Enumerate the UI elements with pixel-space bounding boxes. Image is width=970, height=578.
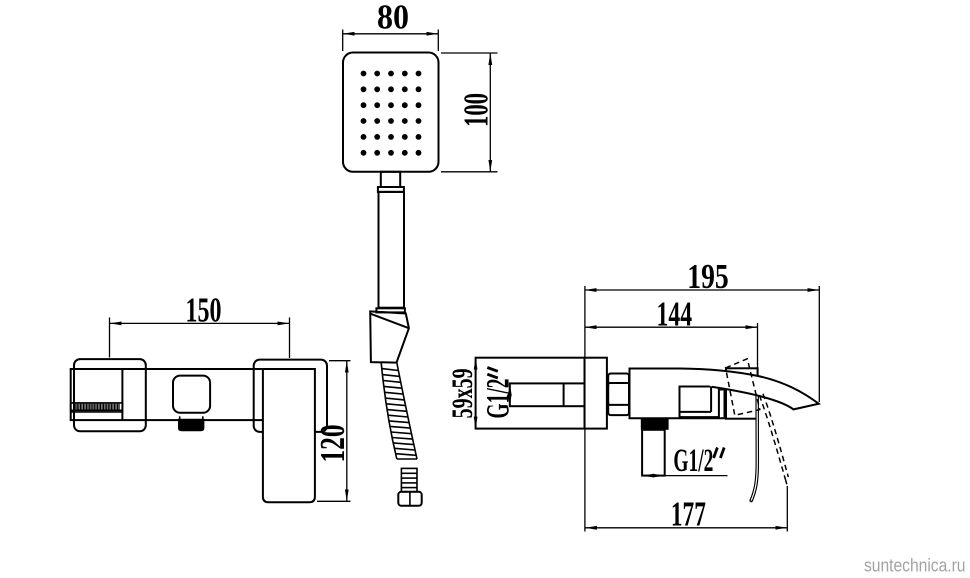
hose hex nut	[398, 492, 421, 506]
extension line 144 (upper part)	[757, 323, 759, 395]
extension line 195 right	[818, 286, 820, 402]
svg-text:144: 144	[657, 295, 693, 334]
dashed lever alternate position	[760, 396, 786, 480]
svg-text:100: 100	[456, 93, 495, 127]
aerator hatch band	[71, 403, 123, 410]
lever handle (solid)	[751, 394, 757, 501]
hand shower handle	[379, 192, 405, 308]
vertical spout front (white filled)	[263, 369, 315, 502]
svg-text:suntechnica.ru: suntechnica.ru	[864, 554, 966, 575]
svg-text:120: 120	[313, 425, 352, 463]
dimension 195 line	[585, 289, 820, 291]
waterfall spout (white fill)	[680, 369, 819, 410]
svg-text:177: 177	[671, 495, 706, 534]
svg-text:80: 80	[377, 0, 409, 36]
aerator lower line	[71, 411, 123, 413]
diverter knob (black)	[178, 419, 204, 431]
svg-text:150: 150	[186, 290, 222, 329]
handle front (rounded square)	[173, 376, 210, 413]
extension line from lever tip	[786, 486, 788, 532]
G1/2 arrows bottom	[642, 475, 653, 477]
dimension 80 line	[343, 33, 439, 35]
wall line / extension line	[584, 286, 586, 532]
spout section divider	[121, 369, 123, 420]
dimension 80 extension lines	[342, 30, 344, 52]
dimension 177 line	[585, 527, 787, 529]
mixer body front	[71, 369, 264, 420]
shower head neck	[381, 172, 400, 187]
svg-text:G1/2: G1/2	[480, 379, 516, 419]
flexible shower hose	[381, 363, 397, 459]
dimension 150 extension lines	[109, 318, 111, 358]
svg-text:195: 195	[687, 257, 729, 296]
in-wall body square 59x59	[476, 358, 585, 429]
inlet pipe	[510, 383, 585, 406]
dashed swivel outline	[726, 359, 760, 416]
dimension text G1/2 (rotated)	[480, 368, 516, 419]
handle side view	[680, 387, 719, 418]
dimension 120 line	[346, 361, 348, 502]
G1/2 pipe dia arrows	[509, 383, 511, 394]
right end cap	[254, 360, 327, 432]
dimension 150 line	[110, 322, 290, 324]
svg-text:G1/2: G1/2	[673, 443, 713, 479]
shower head	[343, 53, 439, 172]
holder rim	[376, 308, 405, 312]
mixer body side	[630, 369, 725, 419]
left end cap	[74, 359, 146, 431]
svg-text:59x59: 59x59	[446, 368, 479, 418]
hose end connector	[401, 468, 417, 491]
G1/2 leader line	[665, 475, 728, 477]
dimension 120 extension lines	[329, 360, 351, 362]
dimension 144 line	[585, 326, 758, 328]
outlet pipe below	[642, 430, 665, 476]
dimension 100 extension lines	[441, 52, 498, 54]
dimension 100 line	[489, 53, 491, 172]
black ring band	[641, 418, 669, 430]
wall holder bracket	[370, 311, 409, 362]
shower head spray nozzle dots	[361, 71, 422, 156]
wall escutcheon plate	[585, 358, 607, 429]
handle collar	[378, 187, 404, 192]
spout mount block	[726, 368, 758, 418]
hex connection nut	[608, 374, 629, 416]
59x59 dim arrows	[475, 358, 477, 370]
